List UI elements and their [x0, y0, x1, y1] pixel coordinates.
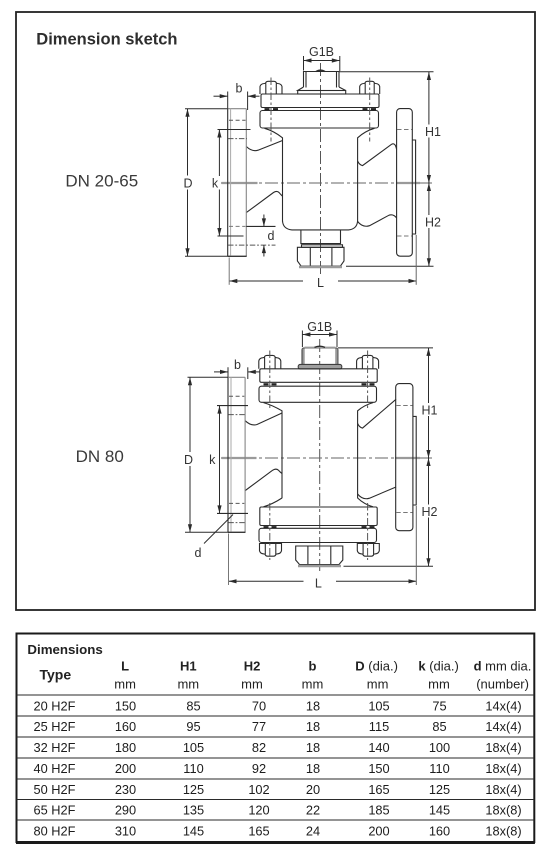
dimension D: [188, 377, 192, 532]
svg-text:92: 92: [252, 761, 266, 776]
right funnel upper edge: [358, 144, 397, 166]
svg-text:165: 165: [368, 782, 389, 797]
svg-text:H2: H2: [425, 216, 441, 230]
bolt B2 (right, top flange): [360, 81, 380, 94]
svg-text:DN 80: DN 80: [76, 447, 124, 466]
svg-text:110: 110: [429, 761, 449, 776]
pipe axis thick gray segment right: [396, 182, 420, 184]
svg-text:18: 18: [306, 761, 320, 776]
svg-text:d: d: [268, 229, 275, 243]
left flange plate: [227, 109, 229, 257]
svg-text:k: k: [212, 177, 219, 191]
svg-text:18: 18: [306, 740, 320, 755]
table header row: [39, 659, 531, 692]
svg-text:H2: H2: [244, 659, 261, 674]
left flange raised face line: [230, 109, 232, 257]
right flange plate: [397, 109, 413, 257]
svg-text:110: 110: [183, 761, 203, 776]
bolt B2 centerline: [369, 78, 371, 142]
svg-text:25 H2F: 25 H2F: [34, 719, 76, 734]
svg-text:160: 160: [115, 719, 136, 734]
dimension d: [262, 218, 275, 253]
right flange plate: [396, 384, 413, 531]
svg-text:H1: H1: [422, 403, 438, 417]
bottom hex nut: [297, 247, 344, 266]
svg-text:120: 120: [248, 802, 269, 817]
bonnet plate 2: [259, 386, 377, 402]
right flange raised face: [412, 140, 415, 234]
svg-text:14x(4): 14x(4): [485, 698, 521, 713]
dimension G1B: [304, 45, 340, 63]
left flange plate: [227, 377, 229, 532]
svg-text:180: 180: [115, 740, 136, 755]
cap top dome: [315, 346, 326, 347]
svg-text:D (dia.): D (dia.): [355, 659, 398, 674]
svg-text:100: 100: [429, 740, 450, 755]
svg-text:40 H2F: 40 H2F: [34, 761, 76, 776]
bolt B4 (right, top): [357, 355, 379, 368]
svg-text:18x(4): 18x(4): [485, 782, 521, 797]
svg-text:77: 77: [252, 719, 266, 734]
svg-text:H1: H1: [425, 125, 441, 139]
dimension G1B: [302, 320, 337, 337]
svg-text:Type: Type: [39, 667, 71, 683]
bonnet flange plate 1: [261, 94, 379, 108]
gasket tick marks: [265, 108, 377, 110]
d hole top extension line: [246, 225, 275, 227]
left flange top bolt hole: [229, 119, 246, 121]
bolt B5 (left, bottom): [260, 544, 282, 557]
right funnel upper edge: [358, 399, 396, 428]
svg-text:18x(4): 18x(4): [485, 761, 521, 776]
svg-text:50 H2F: 50 H2F: [34, 782, 76, 797]
svg-text:65 H2F: 65 H2F: [34, 802, 76, 817]
svg-text:mm: mm: [114, 676, 136, 691]
dimension L: [229, 579, 417, 583]
table row separator lines: [17, 695, 535, 820]
svg-text:d mm dia.: d mm dia.: [474, 659, 532, 674]
svg-text:24: 24: [306, 824, 320, 839]
body bottom shoulders: [264, 498, 283, 507]
svg-text:k: k: [209, 453, 216, 467]
svg-text:14x(4): 14x(4): [485, 719, 521, 734]
sketch frame box: [16, 12, 535, 610]
svg-text:200: 200: [368, 824, 389, 839]
svg-text:H2: H2: [422, 505, 438, 519]
svg-text:L: L: [121, 659, 129, 674]
svg-text:b: b: [236, 82, 243, 96]
bonnet plate 1: [260, 369, 377, 383]
svg-text:(number): (number): [476, 676, 529, 691]
svg-text:18x(8): 18x(8): [485, 824, 521, 839]
svg-text:185: 185: [368, 802, 389, 817]
pipe axis centerline: [221, 182, 434, 184]
svg-text:85: 85: [186, 698, 200, 713]
cap collar band: [298, 364, 342, 369]
svg-text:165: 165: [248, 824, 269, 839]
pipe axis thick gray segment left: [222, 182, 258, 184]
svg-text:mm: mm: [302, 676, 324, 691]
svg-text:160: 160: [429, 824, 450, 839]
svg-text:80 H2F: 80 H2F: [34, 824, 76, 839]
svg-text:150: 150: [368, 761, 389, 776]
pipe axis thick gray segment left: [222, 457, 257, 459]
bolt B4 centerline: [367, 351, 369, 410]
svg-text:145: 145: [183, 824, 204, 839]
bottom hex nut: [296, 546, 343, 565]
dimension k: [217, 406, 221, 514]
dimension k: [217, 130, 221, 237]
top hex plug cap: [302, 348, 338, 364]
svg-text:Dimensions: Dimensions: [27, 642, 102, 657]
dimension D: [185, 109, 189, 257]
svg-text:150: 150: [115, 698, 136, 713]
svg-text:82: 82: [252, 740, 266, 755]
body left wall: [264, 403, 283, 499]
svg-text:95: 95: [186, 719, 200, 734]
svg-text:mm: mm: [177, 676, 199, 691]
dimension H1 / H2: [427, 72, 431, 266]
collar washer: [302, 245, 343, 248]
table outer border: [17, 634, 535, 843]
pipe axis centerline: [221, 457, 433, 459]
svg-text:18: 18: [306, 719, 320, 734]
bolt B1 (left, top flange): [260, 81, 282, 94]
vertical centerline of valve: [319, 339, 321, 571]
svg-text:b: b: [309, 659, 317, 674]
top cap G1B neck: [304, 72, 340, 88]
svg-text:Dimension sketch: Dimension sketch: [36, 31, 177, 49]
left flange raised face line: [230, 377, 232, 532]
svg-text:290: 290: [115, 802, 136, 817]
right flange raised face: [413, 416, 416, 505]
svg-text:18x(4): 18x(4): [485, 740, 521, 755]
table data rows: [34, 698, 522, 838]
dimension b: [220, 358, 256, 374]
left funnel lower edge: [245, 469, 282, 490]
bottom cover plate 2: [259, 528, 377, 542]
dimension H1 / H2: [426, 348, 430, 566]
svg-text:mm: mm: [367, 676, 389, 691]
right flange bolt hole marks: [397, 129, 412, 131]
svg-text:115: 115: [369, 719, 389, 734]
svg-text:L: L: [317, 276, 324, 290]
svg-text:G1B: G1B: [307, 320, 332, 334]
svg-text:L: L: [315, 577, 322, 591]
left flange top bolt hole: [229, 395, 244, 397]
svg-text:105: 105: [183, 740, 204, 755]
svg-text:105: 105: [368, 698, 389, 713]
nut bottom gray band: [298, 565, 341, 567]
svg-text:20 H2F: 20 H2F: [34, 698, 76, 713]
gasket tick marks: [264, 383, 375, 385]
svg-text:32 H2F: 32 H2F: [34, 740, 76, 755]
bolt B3 (left, top): [259, 355, 281, 368]
bolt B3 centerline: [269, 351, 271, 410]
pipe axis thick gray segment right: [395, 457, 420, 459]
bolt B1 centerline: [270, 78, 272, 142]
svg-text:G1B: G1B: [309, 45, 334, 59]
svg-text:mm: mm: [428, 676, 450, 691]
right funnel lower edge: [358, 215, 397, 226]
svg-text:D: D: [184, 453, 193, 467]
stem neck below body: [301, 230, 341, 244]
right flange bolt hole marks: [396, 405, 412, 407]
svg-text:102: 102: [248, 782, 269, 797]
bottom cover plate 1: [260, 507, 377, 526]
valve body right wall: [358, 128, 375, 221]
valve body left wall: [265, 128, 283, 221]
svg-text:125: 125: [429, 782, 450, 797]
bonnet flange plate 2: [260, 111, 379, 129]
svg-text:135: 135: [183, 802, 204, 817]
svg-text:230: 230: [115, 782, 136, 797]
left flange bottom bolt hole: [229, 225, 246, 227]
gasket tick marks bottom: [264, 526, 375, 528]
svg-text:18: 18: [306, 698, 320, 713]
vertical centerline of valve: [320, 63, 322, 276]
svg-text:DN 20-65: DN 20-65: [65, 172, 138, 191]
svg-text:70: 70: [252, 698, 266, 713]
svg-text:H1: H1: [180, 659, 197, 674]
svg-text:d: d: [195, 546, 202, 560]
svg-text:310: 310: [115, 824, 136, 839]
svg-text:mm: mm: [241, 676, 263, 691]
svg-text:D: D: [183, 177, 192, 191]
body right wall: [358, 403, 373, 499]
svg-text:18x(8): 18x(8): [485, 802, 521, 817]
bolt B5 centerline: [269, 503, 271, 560]
left flange bottom bolt hole: [229, 502, 244, 504]
right funnel lower edge: [358, 487, 396, 499]
svg-text:20: 20: [306, 782, 320, 797]
left funnel lower edge: [246, 191, 282, 212]
nut bottom gray band: [299, 266, 342, 268]
bolt B6 centerline: [367, 503, 369, 560]
bolt B6 (right, bottom): [357, 544, 379, 557]
svg-text:145: 145: [429, 802, 450, 817]
left funnel upper edge: [246, 141, 282, 151]
svg-text:b: b: [234, 358, 241, 372]
svg-text:k (dia.): k (dia.): [418, 659, 458, 674]
valve body bottom: [283, 221, 358, 230]
svg-text:125: 125: [183, 782, 204, 797]
dimension b: [220, 82, 256, 99]
svg-text:22: 22: [306, 802, 320, 817]
left funnel upper edge: [245, 413, 282, 425]
svg-text:75: 75: [432, 698, 446, 713]
svg-text:140: 140: [368, 740, 389, 755]
dimension L: [229, 279, 416, 283]
svg-text:200: 200: [115, 761, 136, 776]
svg-text:85: 85: [432, 719, 446, 734]
